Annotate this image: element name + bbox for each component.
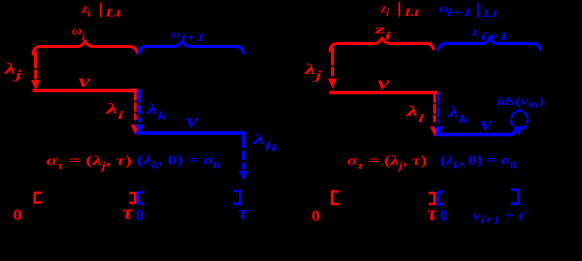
- svg-text:v: v: [378, 73, 391, 93]
- svg-text:z: z: [471, 24, 478, 39]
- svg-text:i+1: i+1: [447, 5, 472, 19]
- svg-text:0: 0: [136, 206, 144, 225]
- svg-text:τ: τ: [122, 202, 134, 224]
- svg-text:Lt: Lt: [103, 8, 122, 20]
- svg-text:v: v: [480, 114, 493, 135]
- svg-text:τ: τ: [427, 203, 438, 225]
- svg-text:i+1: i+1: [481, 29, 510, 43]
- svg-text:0: 0: [312, 208, 321, 225]
- svg-text:τ: τ: [238, 203, 249, 224]
- svg-text:0: 0: [13, 207, 22, 224]
- svg-text:Lt: Lt: [482, 8, 498, 20]
- svg-text:v: v: [186, 111, 199, 132]
- svg-text:Lt: Lt: [403, 7, 421, 19]
- svg-text:0: 0: [440, 206, 447, 225]
- svg-text:v: v: [79, 71, 92, 91]
- svg-text:ω: ω: [171, 27, 180, 41]
- svg-text:i+1: i+1: [181, 32, 205, 44]
